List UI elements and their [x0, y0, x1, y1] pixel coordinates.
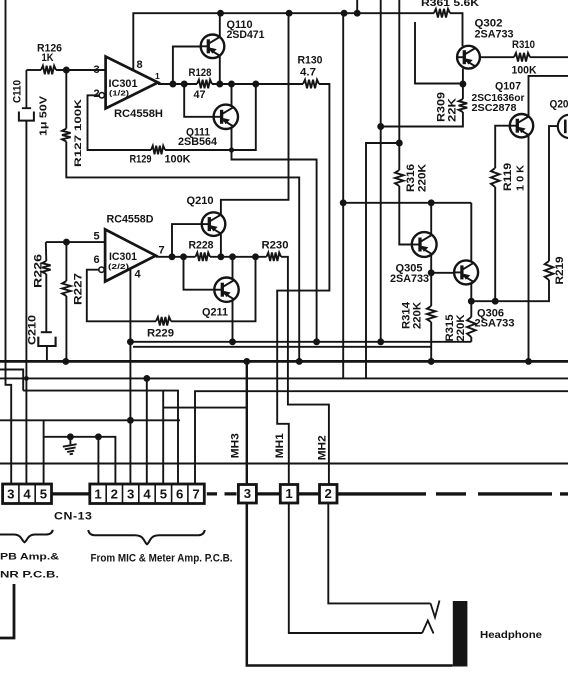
wire Q211 base dropper [184, 257, 215, 290]
node rail junction x343 dropper [341, 10, 348, 17]
wire R119 bottom to emitter bus junction [494, 187, 496, 301]
connector MH3 box 3 [238, 485, 256, 504]
wire R310 to right edge [530, 56, 568, 58]
node out2 junction Q211 base dropper [180, 253, 187, 260]
op-amp U1 IC301 (1/2) triangle [106, 57, 158, 109]
node junction R316 top on x399 vertical [396, 140, 403, 147]
svg-text:MH2: MH2 [317, 435, 329, 460]
wire IC301a output line [158, 83, 197, 85]
wire MH3 dropper from ground bus to box, thick [246, 361, 248, 484]
resistor R226 zigzag [42, 261, 51, 274]
node out2 junction Q210 base riser [169, 253, 176, 260]
svg-text:1: 1 [94, 487, 101, 502]
node H5 junction C110 lead crossing [24, 376, 29, 381]
resistor R127 100K vertical from input node down [65, 70, 67, 129]
resistor R230 zigzag [267, 253, 282, 262]
wire R309 bottom to left toward x381 vertical [381, 112, 463, 127]
wire R127 bottom to long feedback-ground run [66, 142, 299, 362]
wire x381 long vertical from top to H1 [380, 0, 382, 342]
wire R129 to output riser [165, 84, 256, 150]
svg-text:220K: 220K [417, 164, 429, 192]
capacitor C210 top plate [41, 331, 52, 333]
wire stub above rail at x357 [356, 0, 358, 13]
capacitor C110 top plate [22, 70, 31, 108]
wire Q305 emitter down to node [430, 255, 432, 273]
svg-text:2SC2878: 2SC2878 [472, 103, 517, 114]
resistor R119 zigzag [491, 168, 500, 187]
node junction Q306 emitter / R315 / R219 bus [468, 298, 475, 305]
wire Q210 emitter to output line [220, 234, 222, 257]
svg-text:2SA733: 2SA733 [475, 29, 514, 41]
wire output line after R228 to R230 [210, 256, 267, 258]
svg-text:RC4558H: RC4558H [114, 108, 163, 120]
wire pin2 to feedback line [88, 95, 152, 150]
switch contact caret on ring wire [422, 621, 433, 634]
transistor Q107 [510, 114, 533, 137]
wire staircase from left edge y369.5 to H6a [0, 370, 23, 391]
wire IC301b output line [156, 256, 196, 258]
wire pointer mark lower-left L [0, 584, 14, 638]
transistor Q111 2SB564 [214, 105, 238, 129]
wire thick link MH3 to MH1 [256, 492, 280, 495]
wire R219 bottom corner to emitter bus [471, 280, 549, 301]
wire dashed thick link box7 to MH3 [207, 492, 237, 495]
resistor R309 zigzag [459, 99, 468, 112]
svg-text:1: 1 [285, 486, 292, 501]
brace under left connector group [0, 530, 53, 543]
connector MH2 box 2 [320, 485, 338, 504]
svg-text:Q107: Q107 [495, 81, 521, 93]
wire Q20x base down through R219 [549, 126, 558, 261]
capacitor C210 bracket [38, 337, 55, 346]
wire Q306 collector up to y202 right end [470, 203, 472, 262]
svg-text:1K: 1K [42, 52, 54, 64]
wire pin6 to R229 feedback line [87, 270, 156, 322]
node H3 junction x299 feedback-ground [296, 358, 303, 365]
svg-text:(1/2): (1/2) [109, 89, 130, 98]
wire x366 vertical with top jog to R316 [366, 143, 399, 378]
node junction Q302 collector / R309 / bias jog [459, 81, 466, 88]
svg-text:(2/2): (2/2) [108, 262, 130, 271]
svg-text:R229: R229 [147, 328, 174, 340]
wire R314 vertical from node down [430, 273, 432, 306]
resistor R127 zigzag [62, 129, 71, 142]
wire box5 dropper from H6a [162, 391, 164, 484]
svg-text:Q211: Q211 [202, 307, 228, 319]
wire Q302 output to R310 [480, 56, 514, 58]
node H1 junction Q211 emitter [229, 338, 236, 345]
svg-text:4: 4 [135, 269, 142, 281]
transistor Q210 [202, 212, 226, 236]
wire bus H7 y407.6 box5 vertical to MH3 [163, 407, 247, 409]
svg-text:7: 7 [159, 245, 165, 257]
node output junction Q111 base dropper [181, 81, 188, 88]
resistor R361 5.6K on rail [434, 9, 450, 18]
wire ground row y437 [44, 420, 116, 484]
svg-text:6: 6 [94, 254, 100, 266]
wire Q111 collector to output line [231, 84, 233, 107]
svg-text:1: 1 [155, 71, 160, 81]
svg-text:22K: 22K [447, 98, 459, 122]
node H5 junction box4 dropper [143, 375, 150, 382]
svg-text:MH1: MH1 [274, 433, 286, 458]
wire bus H6a y390.6 to box6 [23, 391, 178, 484]
switch contact vee on tip wire [431, 601, 440, 618]
wire box1 dropper [97, 437, 99, 484]
svg-text:5: 5 [94, 231, 100, 243]
node ground row junction box1 dropper [95, 433, 102, 440]
wire bus H2 y347 [133, 346, 431, 348]
node H3 junction R227 [62, 358, 69, 365]
wire bus H5 y378 full width [0, 377, 568, 379]
node junction R309 line on x381 vertical [377, 123, 384, 130]
node H3 junction MH3 dropper [243, 358, 250, 365]
wire R314 bottom to ground bus H3 crossing H1 [430, 322, 432, 361]
svg-text:100K: 100K [165, 154, 192, 166]
wire Q210 collector up and over to rail [221, 13, 289, 214]
wire Q210 base riser [172, 224, 202, 257]
svg-text:R129: R129 [130, 154, 152, 166]
node Q111 emitter cross junction on feedback line [229, 147, 234, 152]
node junction Q305 emitter / Q306 base / R314 [428, 269, 435, 276]
svg-text:R127 100K: R127 100K [73, 98, 83, 167]
wire Q110 emitter to output line [219, 56, 221, 84]
capacitor C110 bracket [19, 112, 34, 121]
resistor R310 zigzag [514, 53, 530, 62]
resistor R227 zigzag [62, 281, 71, 296]
svg-text:2SA733: 2SA733 [390, 273, 429, 285]
node H1 junction x317 [313, 338, 320, 345]
node rail junction Q110 collector [217, 10, 224, 17]
wire after R230 corner down to MH2 route [281, 257, 329, 485]
node ground row junction ground symbol [67, 433, 74, 440]
wire long horizontal line y463.5 [0, 463, 568, 465]
resistor R314 zigzag [427, 306, 436, 322]
svg-text:2: 2 [325, 486, 332, 501]
wire R229 to output riser [171, 257, 256, 322]
svg-text:7: 7 [192, 487, 199, 502]
node H1 junction x381 [377, 338, 384, 345]
resistor R229 zigzag [156, 317, 171, 326]
connector CN-13 left group boxes 3 4 5 [3, 484, 52, 504]
node out2 junction Q210 emitter [217, 253, 224, 260]
ground symbol [63, 437, 78, 455]
wire Q306 emitter down to node [470, 283, 472, 302]
wire MH1 box bottom to jack ring contact [289, 503, 422, 633]
resistor R227 vertical from pin5 node [65, 242, 67, 281]
svg-text:2: 2 [111, 487, 118, 502]
resistor R316 zigzag [395, 170, 404, 186]
svg-text:5: 5 [160, 487, 167, 502]
svg-text:2SD471: 2SD471 [227, 29, 265, 41]
wire left edge vertical input line with jog into box3 [6, 0, 12, 484]
resistor R228 zigzag [196, 253, 211, 262]
wire thick link between connector groups [53, 492, 90, 495]
wire R315 bottom joining H1 right end [470, 337, 472, 342]
node rail junction stub going off-image top [354, 10, 361, 17]
wire bias line H1 y342 [130, 341, 471, 343]
transistor Q305 2SA733 [412, 232, 437, 257]
wire x343 long vertical rail to y378 line [342, 13, 344, 378]
resistor R129 zigzag [151, 146, 165, 155]
node junction R126 / R127 [63, 67, 70, 74]
node rail junction Q210 collector riser [286, 10, 293, 17]
wire Q107 collector up and right to edge [529, 76, 568, 116]
connector CN-13 right group boxes 1-7 [90, 484, 205, 504]
svg-text:Headphone: Headphone [480, 630, 542, 641]
wire thick dashed link MH2 to right edge [337, 492, 568, 495]
wire thick link MH1 to MH2 [298, 492, 320, 495]
svg-text:1 0 K: 1 0 K [516, 164, 527, 191]
transistor Q306 2SA733 [454, 260, 478, 284]
svg-text:R361 5.6K: R361 5.6K [421, 0, 480, 9]
svg-text:C110: C110 [12, 80, 24, 103]
wire Q305 collector up to y202 line [430, 203, 432, 235]
wire R316 line x399 from top [398, 0, 400, 170]
wire MH2 box bottom to jack tip contact [328, 503, 430, 603]
transistor Q302 2SA733 [457, 46, 480, 69]
svg-text:CN-13: CN-13 [54, 511, 93, 523]
connector MH1 box 1 [280, 485, 298, 504]
svg-text:3: 3 [244, 486, 251, 501]
headphone jack bar [453, 601, 468, 667]
wire Q111 emitter down crossing feedback to bias line [232, 127, 317, 342]
svg-text:R119: R119 [502, 163, 514, 191]
resistor R219 zigzag [545, 261, 554, 280]
svg-text:220K: 220K [455, 315, 467, 342]
node H3 junction Q107 emitter [525, 358, 532, 365]
wire input node to pin 3 with R126 [26, 69, 41, 71]
svg-text:Q20: Q20 [550, 98, 568, 110]
svg-text:1μ 50V: 1μ 50V [39, 95, 50, 136]
svg-text:R130: R130 [298, 54, 323, 66]
svg-text:Q210: Q210 [187, 195, 214, 207]
wire Q111 base dropper [184, 84, 213, 117]
svg-text:6: 6 [176, 487, 183, 502]
svg-text:PB Amp.&: PB Amp.& [0, 552, 59, 563]
svg-text:8: 8 [137, 59, 143, 71]
node output junction Q110 base riser [169, 81, 176, 88]
wire MH3 box bottom to jack sleeve [247, 503, 453, 666]
svg-text:4: 4 [143, 487, 151, 502]
svg-text:4.7: 4.7 [300, 66, 316, 78]
wire Q211 collector to output line [232, 257, 234, 280]
resistor R128 47 zigzag [197, 80, 212, 89]
wire R226 bottom to C210 top [45, 274, 47, 332]
node junction Q305 collector on y202 line [428, 199, 435, 206]
svg-text:47: 47 [194, 89, 206, 101]
node out2 junction feedback riser [252, 253, 259, 260]
wire rail from R361 to corner down into Q302 emitter [450, 13, 463, 46]
svg-text:220K: 220K [412, 302, 424, 329]
svg-text:RC4558D: RC4558D [107, 214, 154, 226]
resistor R126 1K [41, 66, 56, 75]
svg-text:100K: 100K [512, 65, 538, 77]
svg-text:R230: R230 [262, 239, 289, 251]
transistor Q110 2SD471 [201, 35, 225, 59]
wire R126 to pin3 [56, 69, 106, 71]
node output junction feedback riser [252, 81, 259, 88]
transistor Q211 [214, 278, 238, 302]
wire bus H6b y391 box7 to right edge [195, 391, 568, 484]
svg-text:3: 3 [7, 487, 14, 502]
resistor R130 4.7 zigzag [303, 80, 319, 89]
svg-text:2SB564: 2SB564 [178, 136, 218, 148]
svg-text:From MIC & Meter Amp. P.C.B.: From MIC & Meter Amp. P.C.B. [91, 553, 233, 565]
svg-text:5: 5 [40, 487, 47, 502]
wire box4 dropper from H5 [146, 378, 148, 484]
svg-text:R226: R226 [33, 254, 45, 288]
resistor R309 22K vertical [462, 84, 464, 99]
pin 6 inverting input circle IC301b [99, 267, 104, 272]
svg-text:NR P.C.B.: NR P.C.B. [0, 570, 59, 581]
wire after R130 corner down to MH1 route [277, 84, 329, 485]
wire ground bus H3 y361 thick [0, 360, 568, 363]
brace under right connector group [88, 530, 204, 544]
svg-text:4: 4 [23, 487, 31, 502]
svg-text:3: 3 [127, 487, 134, 502]
svg-text:MH3: MH3 [230, 433, 242, 458]
wire pin5 input line [46, 241, 105, 243]
wire line y202 collector bus [343, 202, 471, 204]
wire Q107 base left and down through R119 [495, 126, 510, 168]
wire pin4 line of IC301b down to box3 [129, 269, 131, 484]
node output junction Q110 emitter [216, 81, 223, 88]
wire R315 vertical from node [470, 301, 472, 317]
node junction R226/R227 on pin5 line [63, 239, 70, 246]
wire Q110 collector to rail [219, 13, 221, 37]
wire Q107 emitter down to ground bus H3 [528, 135, 530, 361]
wire output line after R128 to R130 [212, 83, 303, 85]
node H1 junction pin4 line [127, 338, 134, 345]
svg-text:C210: C210 [27, 315, 39, 345]
node junction x343 vertical on y202 line [340, 199, 347, 206]
wire bus H8 y420 from left edge [0, 419, 180, 421]
transistor Q20x partial at right edge [558, 115, 568, 138]
svg-text:R227: R227 [73, 273, 85, 305]
wire +V rail from IC301a pin8 riser to R361/Q302 [133, 13, 434, 70]
node H3 junction R314 [428, 358, 435, 365]
svg-text:R228: R228 [189, 239, 214, 251]
wire R316 bottom to Q305 base [399, 186, 412, 245]
node H8 junction pin4 line [127, 417, 134, 424]
svg-text:R316: R316 [405, 164, 417, 192]
svg-text:R310: R310 [512, 39, 535, 51]
node output junction Q111 collector [228, 81, 235, 88]
wire Q302 collector down to R309 node [462, 69, 464, 85]
wire bias jog from rail-side vertical to Q302 collector node [415, 22, 463, 84]
wire C110 bottom lead down to connector box 4 (left) [25, 121, 27, 484]
svg-text:2SA733: 2SA733 [475, 318, 515, 330]
svg-text:R128: R128 [189, 67, 212, 79]
resistor R226 vertical with leads [45, 242, 48, 261]
op-amp U2 IC301 (2/2) triangle [105, 229, 156, 281]
node out2 junction Q211 collector [229, 253, 236, 260]
wire Q305 emitter node to Q306 base [431, 272, 454, 274]
wire Q110 base riser [173, 47, 201, 85]
wire Q211 emitter down to bias line H1 [232, 300, 234, 342]
wire R227 bottom to ground bus H3 [65, 296, 67, 361]
svg-text:R219: R219 [554, 257, 566, 285]
wire C210 bottom stem to ground bus H3 [46, 346, 48, 361]
pin 2 inverting input circle IC301a [99, 93, 104, 98]
resistor R315 zigzag [467, 317, 476, 337]
node junction R119 on emitter bus [492, 298, 499, 305]
